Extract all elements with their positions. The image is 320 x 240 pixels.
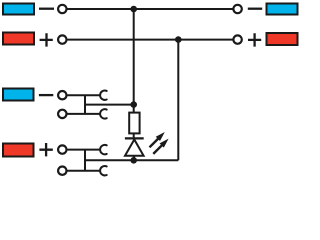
LED arrow 2 [153, 145, 162, 154]
resistor R [129, 113, 139, 134]
level 4 red marker [3, 144, 34, 157]
wire level 1 bus [67, 8, 233, 10]
socket contact level 4 lower [100, 166, 107, 175]
level 3 minus sign [39, 94, 53, 96]
node LED anode junction [130, 157, 137, 164]
level 2 red marker left [3, 33, 34, 45]
wire level 3 link bar [84, 95, 86, 114]
wire level 4 upper [67, 149, 100, 151]
LED cathode bar [125, 137, 144, 139]
LED arrow 1 [150, 139, 159, 148]
level 2 clamp point left [58, 35, 66, 43]
level 1 minus sign left [39, 8, 54, 10]
wire diode to rail [133, 156, 135, 161]
node level 1 tap junction [130, 6, 137, 13]
LED triangle [125, 140, 144, 156]
socket contact level 3 upper [100, 91, 107, 100]
level 4 clamp point upper [58, 145, 66, 153]
level 3 clamp point upper [58, 91, 66, 99]
level 1 minus sign right [248, 8, 262, 10]
socket contact level 4 upper [100, 145, 107, 154]
level 4 clamp point lower [58, 167, 66, 175]
level 1 blue marker left [3, 4, 34, 15]
wire level 2 bus [67, 39, 233, 41]
wire level 3 upper [67, 94, 100, 96]
level 2 red marker right [267, 33, 298, 45]
wire tap level1 to level3 [133, 9, 135, 113]
wire level 4 lower [67, 170, 100, 172]
level 3 clamp point lower [58, 110, 66, 118]
level 1 clamp point right [233, 5, 241, 13]
wire level 4 tap rail [85, 159, 178, 161]
node level 2 tap junction [175, 36, 182, 43]
level 4 plus sign [39, 143, 52, 156]
level 1 clamp point left [58, 5, 66, 13]
wire level 4 link bar [84, 150, 86, 171]
level 2 plus sign left [40, 33, 53, 46]
level 2 plus sign right [248, 33, 261, 46]
wire level 3 tap [85, 104, 134, 106]
level 2 clamp point right [233, 35, 241, 43]
level 3 blue marker [3, 89, 34, 101]
socket contact level 3 lower [100, 109, 107, 118]
level 1 blue marker right [267, 4, 298, 15]
wire level 3 lower [67, 113, 100, 115]
wire tap level2 down [177, 40, 179, 161]
node level 3 junction [130, 101, 137, 108]
wire resistor to diode [133, 133, 135, 139]
